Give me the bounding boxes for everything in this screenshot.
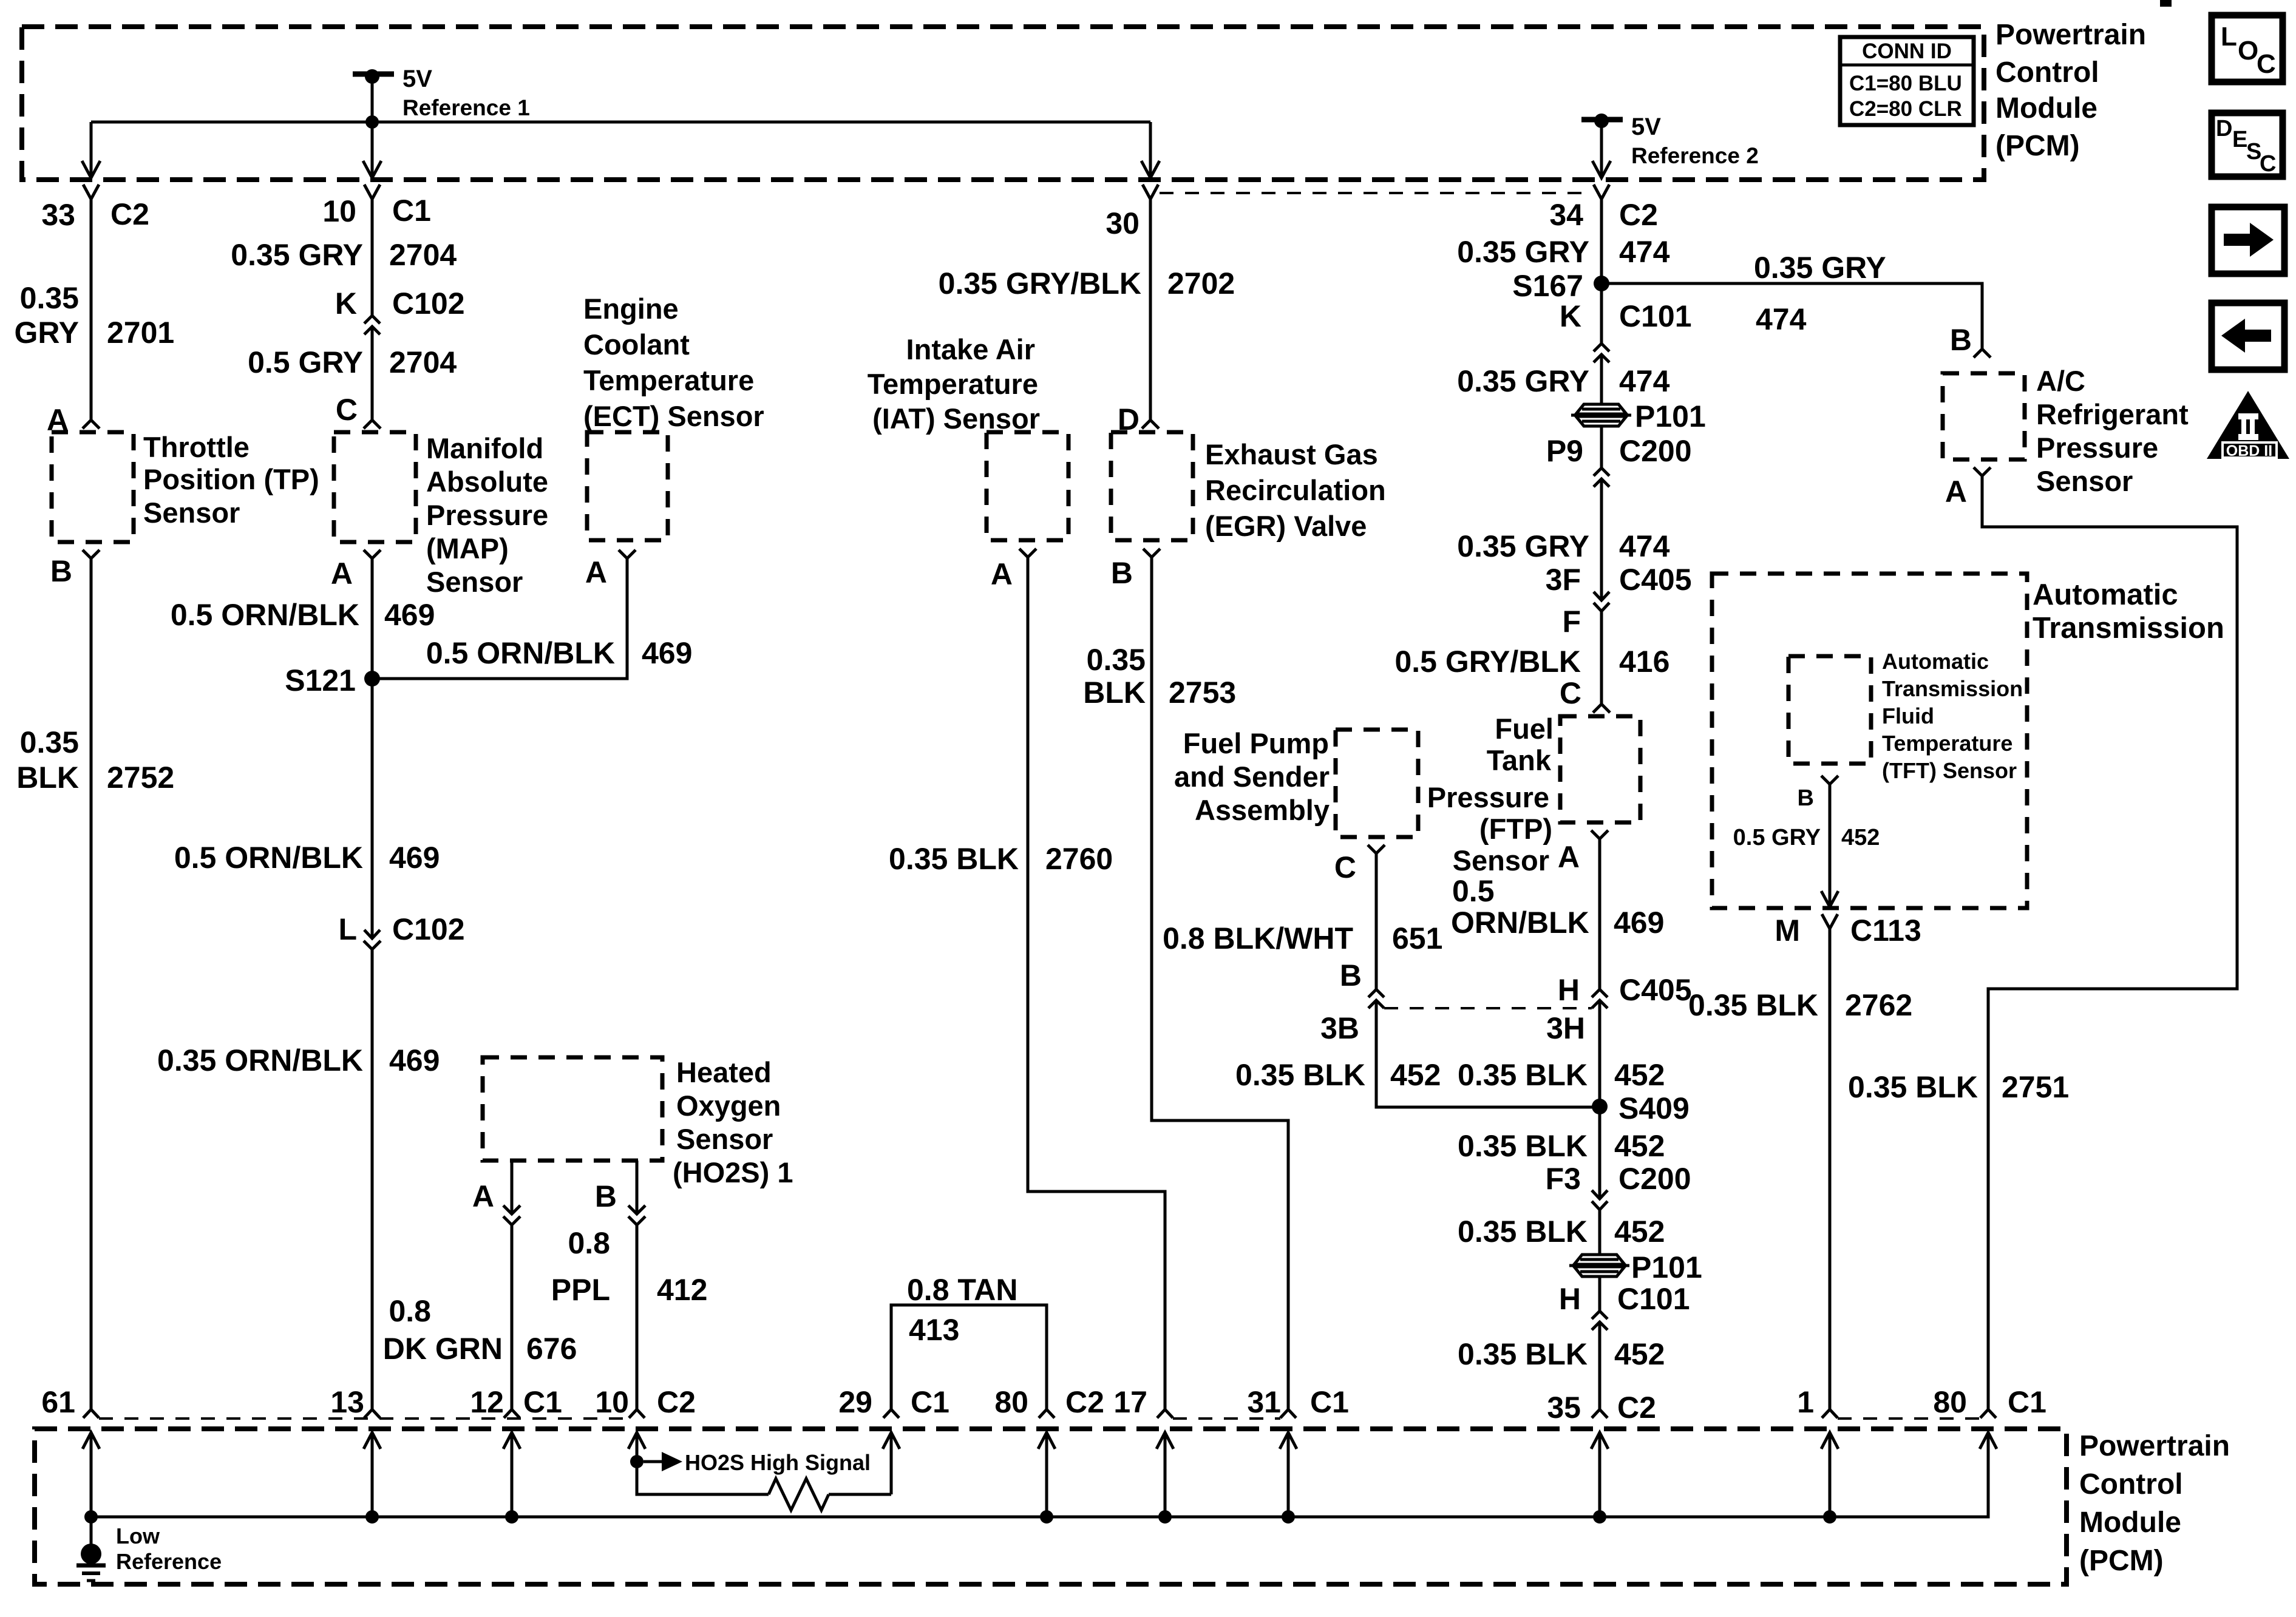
svg-text:Heated: Heated	[676, 1056, 772, 1088]
svg-text:M: M	[1775, 914, 1800, 947]
svg-text:(TFT) Sensor: (TFT) Sensor	[1882, 758, 2017, 783]
svg-text:B: B	[1798, 785, 1814, 811]
svg-text:OBD II: OBD II	[2226, 442, 2272, 459]
connector C200 P9 inline chevrons	[1594, 468, 1609, 476]
svg-text:Engine: Engine	[583, 293, 679, 325]
arrow inside PCM pin 1	[1821, 1432, 1838, 1449]
svg-text:2751: 2751	[2002, 1070, 2069, 1104]
svg-text:C: C	[2260, 151, 2276, 177]
svg-text:Automatic: Automatic	[2033, 578, 2178, 611]
svg-text:(FTP): (FTP)	[1479, 813, 1552, 845]
label Powertrain Control Module (PCM) bottom	[2079, 1430, 2230, 1577]
svg-text:Absolute: Absolute	[426, 466, 548, 498]
svg-text:Powertrain: Powertrain	[1995, 19, 2146, 51]
connector pin C into FTP box	[1593, 704, 1610, 713]
svg-text:Exhaust Gas: Exhaust Gas	[1205, 438, 1378, 470]
label 0.35 GRY/BLK 2702	[939, 266, 1235, 300]
label 0.8 DK GRN 676	[383, 1294, 577, 1366]
svg-text:3H: 3H	[1546, 1011, 1585, 1045]
svg-text:0.35 BLK: 0.35 BLK	[1458, 1058, 1588, 1092]
svg-text:DK GRN: DK GRN	[383, 1332, 503, 1366]
wire 469 MAP A to S121	[371, 558, 374, 679]
wire 2753 EGR B to pin 31	[1152, 557, 1288, 1409]
svg-text:0.35: 0.35	[20, 725, 79, 759]
svg-text:C2: C2	[657, 1385, 696, 1419]
icon DESC box	[2212, 113, 2283, 177]
wire 452 C101 H to pin 35	[1598, 1322, 1601, 1409]
svg-text:474: 474	[1619, 364, 1670, 398]
wire resistor to pin 29	[829, 1493, 891, 1496]
connector chevron pin 17	[1157, 1409, 1173, 1418]
label 0.35 BLK 452 under F3	[1458, 1215, 1665, 1249]
svg-text:61: 61	[41, 1385, 75, 1419]
label Low Reference	[116, 1524, 222, 1574]
svg-text:K: K	[335, 286, 357, 320]
svg-text:2704: 2704	[389, 345, 457, 379]
svg-text:Oxygen: Oxygen	[676, 1090, 781, 1122]
power 5V Reference 1 terminal	[353, 66, 530, 120]
svg-text:80: 80	[1933, 1385, 1967, 1419]
wire 412 HO2S B to pin 10 C2	[636, 1225, 639, 1409]
label A/C Refrigerant Pressure Sensor	[2036, 365, 2189, 497]
thin dashed connector boundary 61 to 10	[99, 1417, 629, 1420]
artifact mark	[2160, 0, 2172, 7]
svg-text:L: L	[2221, 22, 2237, 52]
svg-text:452: 452	[1390, 1058, 1441, 1092]
svg-text:0.35 ORN/BLK: 0.35 ORN/BLK	[157, 1043, 363, 1077]
svg-text:C: C	[1560, 676, 1581, 710]
svg-text:0.8 BLK/WHT: 0.8 BLK/WHT	[1163, 921, 1353, 955]
svg-text:Fuel Pump: Fuel Pump	[1183, 727, 1329, 759]
label 0.8 PPL 412	[551, 1226, 708, 1307]
svg-text:PPL: PPL	[551, 1273, 610, 1307]
connector C101 H inline chevrons	[1592, 1311, 1608, 1319]
svg-text:A: A	[472, 1179, 494, 1213]
svg-text:0.5 GRY: 0.5 GRY	[248, 345, 363, 379]
svg-text:Recirculation: Recirculation	[1205, 474, 1386, 506]
svg-text:P101: P101	[1635, 399, 1706, 433]
svg-text:F3: F3	[1546, 1162, 1581, 1196]
junction dot pin 13 bus	[365, 1510, 379, 1524]
svg-text:Tank: Tank	[1487, 744, 1552, 776]
wire 452 S409 to C200 F3	[1598, 1107, 1601, 1199]
connector pin A below IAT box	[1019, 549, 1036, 557]
thin dashed connector boundary 3B to 3H	[1384, 1007, 1592, 1009]
label Automatic Transmission	[2033, 578, 2224, 645]
label 0.35 GRY 2701	[15, 281, 175, 350]
icon OBD II triangle	[2207, 391, 2289, 459]
connector pin A below FTP box	[1591, 830, 1608, 839]
svg-text:0.35 BLK: 0.35 BLK	[1458, 1215, 1588, 1249]
svg-text:S121: S121	[285, 663, 356, 697]
label 0.35 BLK 2751	[1848, 1070, 2069, 1104]
connector C405 H inline chevrons	[1592, 989, 1608, 997]
svg-text:0.5: 0.5	[1452, 874, 1495, 908]
svg-text:B: B	[1111, 556, 1133, 590]
svg-text:A: A	[1945, 475, 1967, 509]
arrow inside PCM pin 10	[628, 1432, 645, 1449]
label Fuel Tank Pressure (FTP) Sensor	[1427, 713, 1554, 876]
wire 474 C101 to P101	[1600, 354, 1603, 405]
svg-text:H: H	[1558, 973, 1580, 1007]
svg-text:(MAP): (MAP)	[426, 532, 509, 564]
label 0.35 BLK 2753	[1083, 643, 1236, 710]
connector inline HO2S A chevrons	[503, 1205, 520, 1214]
connector chevron pin 61	[83, 1409, 99, 1418]
svg-text:Temperature: Temperature	[1882, 731, 2012, 756]
junction dot pin 31 bus	[1282, 1510, 1295, 1524]
wire 452 TFT B inside AT box	[1829, 784, 1832, 907]
connector pin C below fuel pump box	[1368, 845, 1385, 853]
CONN ID table box	[1840, 37, 1974, 125]
wire drop to pin 30	[1149, 122, 1152, 178]
connector pin B below TFT box	[1821, 776, 1838, 784]
svg-text:Reference 1: Reference 1	[402, 95, 530, 120]
label Exhaust Gas Recirculation (EGR) Valve	[1205, 438, 1386, 542]
arrow inside PCM pin 12	[503, 1432, 520, 1449]
label 0.35 GRY 474 second	[1457, 364, 1669, 398]
svg-text:30: 30	[1106, 206, 1140, 240]
svg-text:Control: Control	[2079, 1468, 2183, 1500]
svg-text:C405: C405	[1619, 563, 1692, 597]
connector chevron pin 29	[883, 1409, 899, 1418]
svg-text:C1: C1	[2008, 1385, 2046, 1419]
arrow into PCM edge pin 33	[82, 161, 100, 178]
icon left arrow box	[2212, 303, 2284, 370]
svg-text:413: 413	[909, 1313, 959, 1347]
svg-text:P9: P9	[1546, 434, 1583, 468]
svg-text:A: A	[1558, 840, 1580, 874]
svg-text:Pressure: Pressure	[1427, 781, 1549, 813]
svg-text:C101: C101	[1617, 1282, 1690, 1316]
svg-text:C2: C2	[1065, 1385, 1104, 1419]
svg-text:Throttle: Throttle	[143, 431, 250, 463]
svg-text:0.35 GRY/BLK: 0.35 GRY/BLK	[939, 266, 1141, 300]
connector pin A below ECT box	[619, 550, 636, 558]
connector Y C113 M	[1822, 914, 1838, 929]
svg-text:Pressure: Pressure	[426, 499, 548, 531]
node S167 junction	[1594, 276, 1609, 291]
svg-text:Transmission: Transmission	[1882, 676, 2023, 701]
svg-text:29: 29	[838, 1385, 872, 1419]
connector pin B into AC box	[1974, 349, 1991, 358]
svg-text:(IAT) Sensor: (IAT) Sensor	[872, 402, 1040, 435]
wire 416 C405 F to FTP C	[1600, 611, 1603, 704]
svg-text:416: 416	[1619, 645, 1669, 679]
svg-text:and Sender: and Sender	[1174, 761, 1330, 793]
svg-text:B: B	[595, 1179, 617, 1213]
label 0.5 GRY/BLK 416	[1394, 645, 1669, 679]
svg-text:C1: C1	[911, 1385, 949, 1419]
component EGR valve box	[1111, 432, 1193, 540]
svg-text:474: 474	[1756, 302, 1807, 336]
svg-text:452: 452	[1614, 1129, 1665, 1163]
arrow inside PCM pin 80 C1	[1980, 1432, 1997, 1449]
svg-text:Powertrain: Powertrain	[2079, 1430, 2230, 1462]
label 0.35 GRY 474 top	[1457, 235, 1669, 269]
svg-text:1: 1	[1797, 1385, 1814, 1419]
connector chevron pin 10 C2	[629, 1409, 645, 1418]
svg-text:Manifold: Manifold	[426, 432, 543, 464]
svg-text:Transmission: Transmission	[2033, 612, 2224, 645]
connector Y pin 10	[364, 185, 380, 199]
PCM top dashed enclosure box	[22, 27, 1984, 180]
svg-text:Module: Module	[1995, 92, 2097, 124]
svg-text:0.35 BLK: 0.35 BLK	[1848, 1070, 1978, 1104]
svg-text:Refrigerant: Refrigerant	[2036, 398, 2189, 430]
svg-text:C1: C1	[523, 1385, 562, 1419]
label 0.8 BLK/WHT 651	[1163, 921, 1442, 955]
wire 2752 TP B to pin 61	[90, 558, 93, 1409]
svg-text:2702: 2702	[1167, 266, 1235, 300]
svg-text:0.35 BLK: 0.35 BLK	[1458, 1337, 1588, 1371]
arrow inside PCM pin 13	[364, 1432, 381, 1449]
svg-text:C1: C1	[392, 194, 431, 228]
svg-text:2752: 2752	[107, 761, 174, 795]
junction dot pin 61 bus	[84, 1510, 98, 1524]
label 0.35 BLK 452 above pin 35	[1458, 1337, 1665, 1371]
thin dashed connector boundary 30 to 34	[1160, 192, 1593, 194]
svg-text:S409: S409	[1618, 1091, 1690, 1125]
svg-text:0.35 GRY: 0.35 GRY	[1457, 364, 1589, 398]
label 0.5 ORN/BLK 469 FTP	[1451, 874, 1664, 940]
arrow inside PCM pin 29	[883, 1432, 900, 1449]
svg-text:C2: C2	[1617, 1391, 1656, 1425]
svg-text:80: 80	[994, 1385, 1028, 1419]
svg-text:C1: C1	[1310, 1385, 1349, 1419]
svg-text:O: O	[2238, 36, 2258, 66]
wire 474 pin 34 to S167	[1600, 199, 1603, 283]
svg-text:CONN ID: CONN ID	[1862, 39, 1952, 63]
junction dot pin 35 bus	[1593, 1510, 1606, 1524]
svg-text:0.5 GRY/BLK: 0.5 GRY/BLK	[1394, 645, 1581, 679]
svg-text:31: 31	[1247, 1385, 1281, 1419]
ground symbol Low Reference	[76, 1517, 106, 1581]
svg-text:0.5 ORN/BLK: 0.5 ORN/BLK	[174, 841, 363, 875]
svg-text:3B: 3B	[1320, 1011, 1359, 1045]
svg-text:34: 34	[1549, 198, 1583, 232]
svg-text:Sensor: Sensor	[143, 497, 240, 529]
connector pin A below MAP box	[364, 550, 381, 558]
svg-text:12: 12	[470, 1385, 504, 1419]
component ECT sensor box	[587, 432, 668, 540]
svg-text:0.35 GRY: 0.35 GRY	[1754, 251, 1886, 285]
svg-text:Position (TP): Position (TP)	[143, 463, 319, 495]
svg-text:0.8 TAN: 0.8 TAN	[907, 1273, 1017, 1307]
svg-text:C102: C102	[392, 912, 465, 946]
svg-text:469: 469	[1614, 906, 1664, 940]
svg-text:C: C	[1334, 850, 1356, 884]
resistor HO2S internal	[769, 1479, 829, 1510]
wire 452 C405 B to S409	[1376, 1000, 1600, 1107]
connector C405 B inline chevrons	[1368, 989, 1384, 997]
svg-text:0.35 GRY: 0.35 GRY	[1457, 529, 1589, 563]
wire 469 FTP A to C405 H	[1598, 839, 1601, 989]
wire 5V Reference 1 vertical stub	[371, 76, 374, 122]
wire 452 C405 H to S409	[1598, 1000, 1601, 1107]
label 0.35 ORN/BLK 469	[157, 1043, 440, 1077]
svg-text:5V: 5V	[402, 66, 432, 92]
connector C102 K inline chevrons	[364, 316, 380, 324]
junction dot pin 80 C2 bus	[1040, 1510, 1053, 1524]
svg-text:0.35 GRY: 0.35 GRY	[1457, 235, 1589, 269]
wire 469 C102 L to pin 13	[371, 949, 374, 1409]
svg-text:0.8: 0.8	[568, 1226, 610, 1260]
svg-text:474: 474	[1619, 529, 1670, 563]
svg-text:C405: C405	[1619, 973, 1692, 1007]
svg-text:469: 469	[389, 841, 440, 875]
svg-text:0.35 BLK: 0.35 BLK	[1458, 1129, 1588, 1163]
connector chevron pin 12	[504, 1409, 520, 1418]
connector inline HO2S B chevrons	[628, 1205, 645, 1214]
svg-text:Sensor: Sensor	[426, 566, 523, 598]
label 0.35 BLK 2760	[889, 842, 1113, 876]
svg-text:P101: P101	[1631, 1250, 1702, 1284]
label 0.35 BLK 452 under 3B	[1235, 1058, 1441, 1092]
wire 469 ECT A to S121	[372, 558, 627, 679]
thin dashed connector boundary 1 to 80	[1838, 1417, 1980, 1420]
svg-text:13: 13	[330, 1385, 364, 1419]
svg-text:C102: C102	[392, 286, 465, 320]
svg-text:Pressure: Pressure	[2036, 432, 2158, 464]
power 5V Reference 2 terminal	[1581, 114, 1759, 168]
wire 676 HO2S A to pin 12	[511, 1225, 514, 1409]
icon LOC box	[2212, 15, 2283, 82]
connector pin B below EGR box	[1143, 549, 1160, 557]
arrow inside PCM pin 80 C2	[1038, 1432, 1055, 1449]
svg-text:0.5 ORN/BLK: 0.5 ORN/BLK	[171, 598, 359, 632]
connector pass-through P101 grommet	[1571, 404, 1631, 426]
thin dashed connector boundary 17 to 31	[1173, 1417, 1280, 1420]
svg-text:0.35 BLK: 0.35 BLK	[889, 842, 1019, 876]
svg-text:K: K	[1560, 299, 1581, 333]
arrow inside PCM pin 31	[1280, 1432, 1297, 1449]
junction dot pin 1 bus	[1823, 1510, 1836, 1524]
svg-text:Fuel: Fuel	[1495, 713, 1554, 745]
wire 474 C200 to C405 3F	[1600, 479, 1603, 600]
wire 452 C200 to P101 lower	[1598, 1210, 1601, 1256]
wire 413 TAN bracket pin 29 to pin 80	[891, 1305, 1047, 1409]
svg-text:C2: C2	[1619, 198, 1658, 232]
label 0.35 GRY 474 third	[1457, 529, 1669, 563]
label 0.5 ORN/BLK 469 upper	[171, 598, 435, 632]
arrow HO2S High Signal pointer	[644, 1460, 662, 1463]
connector chevron pin 80 C2	[1039, 1409, 1055, 1418]
svg-text:C200: C200	[1618, 1162, 1691, 1196]
svg-text:452: 452	[1841, 825, 1880, 850]
connector pin B below TP box	[83, 550, 100, 558]
connector chevron pin 13	[364, 1409, 380, 1418]
junction dot at MAP drop	[365, 115, 379, 129]
svg-text:0.8: 0.8	[389, 1294, 431, 1328]
svg-text:Sensor: Sensor	[676, 1123, 773, 1155]
arrow inside PCM pin 61	[83, 1432, 100, 1449]
component Fuel Tank Pressure sensor box	[1560, 716, 1640, 822]
svg-text:A/C: A/C	[2036, 365, 2085, 397]
wire 474 P101 to C200 P9	[1600, 425, 1603, 468]
arrow into PCM edge pin 10	[363, 161, 381, 178]
svg-text:Automatic: Automatic	[1882, 649, 1989, 674]
svg-text:Assembly: Assembly	[1195, 794, 1330, 826]
wire 651 fuel pump C to C405 B	[1375, 853, 1378, 989]
svg-text:C200: C200	[1619, 434, 1692, 468]
junction dot pin 12 bus	[505, 1510, 518, 1524]
svg-text:Low: Low	[116, 1524, 160, 1548]
label Fuel Pump and Sender Assembly	[1174, 727, 1330, 826]
svg-text:Reference 2: Reference 2	[1631, 143, 1759, 168]
svg-text:0.35 BLK: 0.35 BLK	[1235, 1058, 1365, 1092]
connector pin A into TP box	[83, 420, 100, 429]
label Engine Coolant Temperature (ECT) Sensor	[583, 293, 764, 432]
connector pin D into EGR box	[1142, 420, 1159, 429]
label Heated Oxygen Sensor (HO2S) 1	[673, 1056, 793, 1188]
svg-text:17: 17	[1113, 1385, 1147, 1419]
connector pin C into MAP box	[364, 420, 381, 429]
svg-text:(EGR) Valve: (EGR) Valve	[1205, 510, 1367, 542]
svg-text:L: L	[338, 912, 357, 946]
svg-text:0.35: 0.35	[1087, 643, 1146, 677]
connector C405 3F inline chevrons	[1594, 592, 1609, 600]
label Intake Air Temperature (IAT) Sensor	[868, 333, 1040, 435]
wire 2751 AC A to pin 80 C1	[1982, 476, 2237, 1409]
wire HO2S pin B lead	[636, 1161, 639, 1214]
component IAT sensor box	[987, 432, 1068, 540]
svg-text:Reference: Reference	[116, 1549, 222, 1574]
svg-text:651: 651	[1392, 921, 1442, 955]
svg-text:S167: S167	[1512, 269, 1583, 303]
arrow into PCM edge pin 34	[1592, 161, 1611, 178]
label 0.5 GRY 452	[1733, 825, 1880, 850]
svg-text:2753: 2753	[1169, 676, 1236, 710]
connector C101 K inline chevrons	[1594, 344, 1609, 351]
arrow into PCM edge pin 30	[1141, 161, 1160, 178]
component AC Refrigerant Pressure sensor box	[1943, 373, 2025, 459]
svg-text:469: 469	[642, 636, 692, 670]
label Automatic Transmission Fluid Temperature (TFT) Sensor	[1882, 649, 2023, 783]
label 0.35 GRY 474 branch	[1754, 251, 1886, 336]
svg-text:(ECT) Sensor: (ECT) Sensor	[583, 400, 764, 432]
wire 2701 pin 33 to TP sensor A	[90, 199, 93, 420]
svg-text:A: A	[991, 557, 1013, 591]
svg-text:GRY: GRY	[15, 316, 80, 350]
svg-text:B: B	[50, 554, 72, 588]
svg-text:3F: 3F	[1546, 563, 1581, 597]
component Fuel Pump and Sender Assembly box	[1336, 730, 1418, 837]
svg-text:(PCM): (PCM)	[1995, 130, 2080, 162]
svg-text:452: 452	[1614, 1337, 1665, 1371]
label 0.5 ORN/BLK 469 lower	[174, 841, 440, 875]
svg-text:Temperature: Temperature	[583, 364, 754, 396]
svg-text:(PCM): (PCM)	[2079, 1545, 2164, 1577]
svg-text:2701: 2701	[107, 316, 174, 350]
svg-text:Module: Module	[2079, 1507, 2181, 1539]
wire 5V Reference 2 drop to pin 34	[1600, 121, 1603, 178]
svg-text:F: F	[1562, 605, 1581, 639]
label Throttle Position (TP) Sensor	[143, 431, 319, 529]
svg-text:35: 35	[1547, 1391, 1581, 1425]
component TFT sensor box	[1788, 656, 1871, 764]
connector Y pin 30	[1143, 185, 1158, 199]
svg-text:469: 469	[384, 598, 435, 632]
connector pass-through P101 grommet lower	[1569, 1255, 1629, 1276]
wire 2762 C113 M to pin 1	[1829, 929, 1832, 1409]
label 0.35 BLK 2752	[16, 725, 174, 795]
wire 452 P101 to C101 H	[1598, 1276, 1601, 1311]
wire 2704 pin 10 to C102 K	[371, 199, 374, 316]
connector chevron pin 35	[1592, 1409, 1608, 1418]
svg-text:C: C	[2257, 49, 2276, 79]
wire 2704 C102 to MAP C	[371, 327, 374, 420]
